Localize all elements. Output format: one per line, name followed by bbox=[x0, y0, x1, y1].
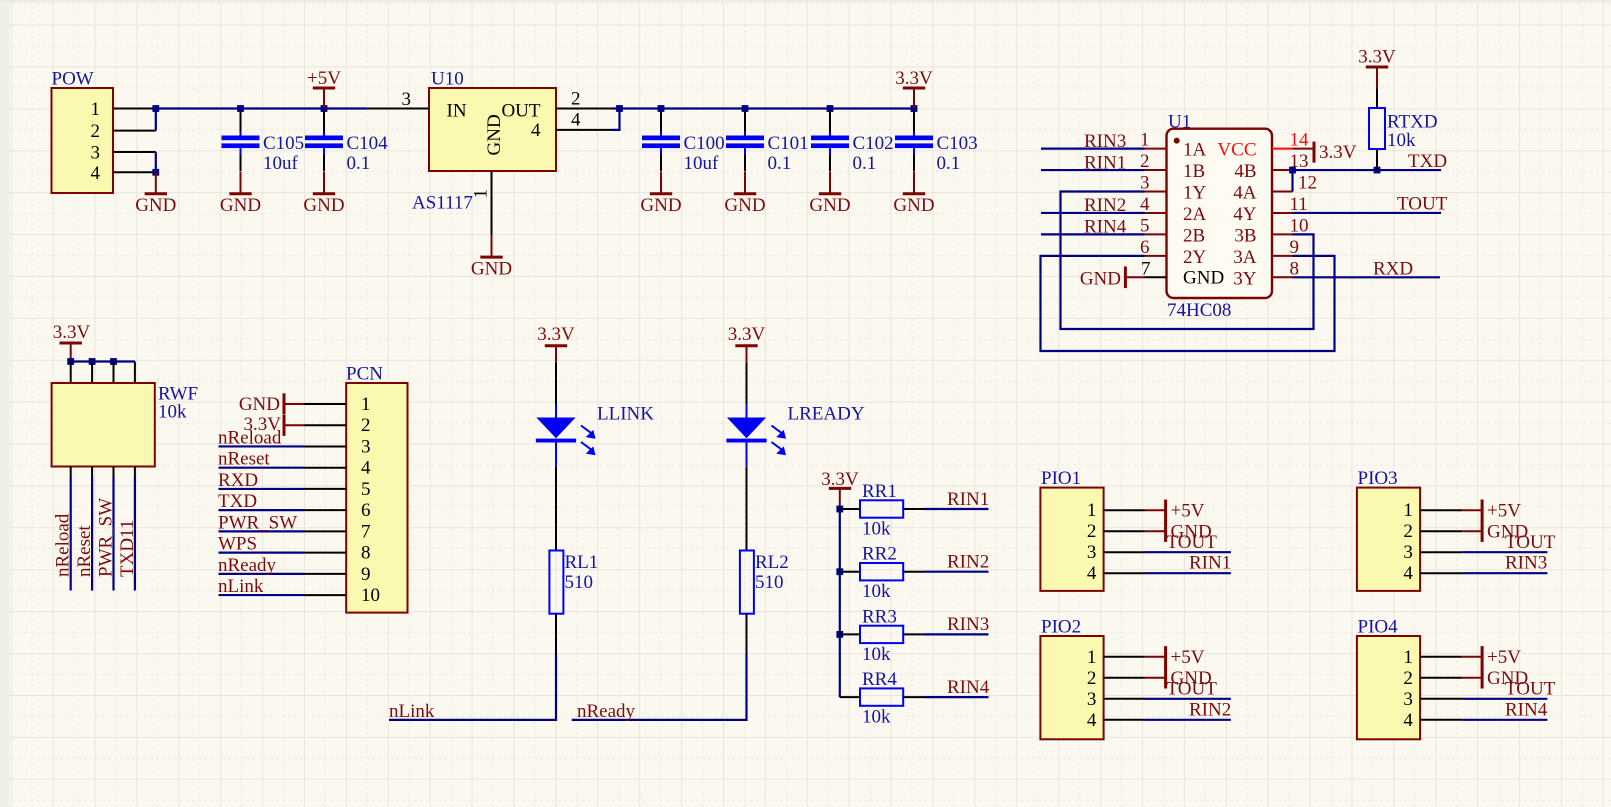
svg-text:TOUT: TOUT bbox=[1167, 532, 1218, 553]
svg-text:RR4: RR4 bbox=[862, 669, 897, 690]
svg-text:LREADY: LREADY bbox=[788, 404, 865, 425]
svg-text:10k: 10k bbox=[1387, 130, 1416, 151]
svg-text:RXD: RXD bbox=[218, 470, 258, 491]
svg-text:GND: GND bbox=[893, 195, 934, 216]
svg-text:GND: GND bbox=[640, 195, 681, 216]
svg-text:RIN1: RIN1 bbox=[1084, 152, 1126, 173]
svg-text:C103: C103 bbox=[937, 133, 978, 154]
svg-text:RIN4: RIN4 bbox=[1084, 217, 1127, 238]
svg-text:3.3V: 3.3V bbox=[728, 324, 766, 345]
svg-text:GND: GND bbox=[484, 114, 505, 155]
svg-text:3: 3 bbox=[361, 436, 371, 457]
svg-text:RL1: RL1 bbox=[565, 552, 599, 573]
svg-text:4: 4 bbox=[531, 120, 541, 141]
svg-text:2: 2 bbox=[361, 415, 371, 436]
svg-text:RIN3: RIN3 bbox=[1505, 553, 1547, 574]
svg-text:TOUT: TOUT bbox=[1167, 679, 1218, 700]
svg-text:IN: IN bbox=[447, 101, 467, 122]
svg-text:3.3V: 3.3V bbox=[821, 469, 859, 490]
svg-text:1: 1 bbox=[1140, 130, 1150, 151]
svg-text:74HC08: 74HC08 bbox=[1167, 300, 1231, 321]
svg-text:14: 14 bbox=[1290, 130, 1310, 151]
svg-text:C100: C100 bbox=[684, 133, 725, 154]
svg-text:10uf: 10uf bbox=[684, 153, 720, 174]
svg-text:2Y: 2Y bbox=[1183, 247, 1207, 268]
svg-text:GND: GND bbox=[303, 195, 344, 216]
svg-text:4: 4 bbox=[1403, 563, 1413, 584]
svg-text:GND: GND bbox=[471, 258, 512, 279]
svg-text:PIO3: PIO3 bbox=[1358, 468, 1398, 489]
svg-text:1: 1 bbox=[1087, 647, 1097, 668]
svg-text:GND: GND bbox=[1183, 267, 1224, 288]
svg-text:VCC: VCC bbox=[1217, 140, 1256, 161]
svg-text:0.1: 0.1 bbox=[768, 153, 792, 174]
svg-text:1: 1 bbox=[1403, 500, 1413, 521]
svg-text:5: 5 bbox=[1140, 215, 1150, 236]
svg-text:10k: 10k bbox=[158, 402, 187, 423]
svg-text:nReady: nReady bbox=[577, 701, 636, 722]
svg-text:8: 8 bbox=[1290, 258, 1300, 279]
svg-text:4Y: 4Y bbox=[1233, 204, 1257, 225]
svg-text:+5V: +5V bbox=[1171, 647, 1205, 668]
svg-text:TOUT: TOUT bbox=[1397, 193, 1448, 214]
svg-text:LLINK: LLINK bbox=[597, 404, 654, 425]
svg-text:3.3V: 3.3V bbox=[53, 322, 91, 343]
svg-text:3B: 3B bbox=[1234, 225, 1256, 246]
svg-text:4: 4 bbox=[1140, 194, 1150, 215]
svg-text:4: 4 bbox=[91, 163, 101, 184]
svg-text:nLink: nLink bbox=[389, 701, 435, 722]
svg-text:3A: 3A bbox=[1233, 247, 1257, 268]
svg-text:nReload: nReload bbox=[53, 513, 74, 577]
svg-text:TXD: TXD bbox=[218, 491, 257, 512]
svg-text:6: 6 bbox=[361, 500, 371, 521]
svg-text:PIO2: PIO2 bbox=[1041, 616, 1081, 637]
svg-text:RIN1: RIN1 bbox=[1189, 553, 1231, 574]
svg-text:nLink: nLink bbox=[218, 576, 264, 597]
svg-text:AS1117: AS1117 bbox=[412, 193, 473, 214]
svg-text:3: 3 bbox=[1403, 542, 1413, 563]
svg-text:510: 510 bbox=[755, 572, 784, 593]
svg-text:POW: POW bbox=[52, 69, 94, 90]
svg-text:3: 3 bbox=[91, 143, 101, 164]
svg-text:2A: 2A bbox=[1183, 204, 1207, 225]
svg-text:1A: 1A bbox=[1183, 140, 1207, 161]
svg-text:nReady: nReady bbox=[218, 555, 277, 576]
svg-text:TOUT: TOUT bbox=[1505, 532, 1556, 553]
svg-text:4: 4 bbox=[571, 110, 581, 131]
svg-text:8: 8 bbox=[361, 543, 371, 564]
svg-text:RR1: RR1 bbox=[862, 481, 897, 502]
svg-text:2: 2 bbox=[1403, 668, 1413, 689]
svg-text:1: 1 bbox=[1087, 500, 1097, 521]
svg-text:PIO1: PIO1 bbox=[1041, 468, 1081, 489]
svg-text:4: 4 bbox=[1403, 710, 1413, 731]
svg-text:1B: 1B bbox=[1183, 161, 1205, 182]
svg-text:2: 2 bbox=[1087, 668, 1097, 689]
svg-text:1: 1 bbox=[361, 394, 371, 415]
svg-text:2: 2 bbox=[1087, 521, 1097, 542]
svg-text:10: 10 bbox=[1290, 215, 1309, 236]
svg-text:GND: GND bbox=[135, 195, 176, 216]
svg-text:C102: C102 bbox=[853, 133, 894, 154]
svg-text:RIN2: RIN2 bbox=[1084, 195, 1126, 216]
svg-text:+5V: +5V bbox=[1487, 647, 1521, 668]
svg-text:2B: 2B bbox=[1183, 225, 1205, 246]
svg-text:RIN4: RIN4 bbox=[947, 677, 990, 698]
svg-text:3: 3 bbox=[1087, 689, 1097, 710]
svg-text:12: 12 bbox=[1298, 173, 1317, 194]
svg-text:11: 11 bbox=[1290, 194, 1308, 215]
svg-text:3: 3 bbox=[402, 89, 412, 110]
svg-text:RIN3: RIN3 bbox=[1084, 131, 1126, 152]
svg-text:4B: 4B bbox=[1234, 161, 1256, 182]
svg-text:5: 5 bbox=[361, 479, 371, 500]
svg-text:4A: 4A bbox=[1233, 183, 1257, 204]
svg-text:RIN4: RIN4 bbox=[1505, 699, 1548, 720]
svg-text:3Y: 3Y bbox=[1233, 268, 1257, 289]
svg-text:0.1: 0.1 bbox=[347, 153, 371, 174]
svg-text:RIN2: RIN2 bbox=[1189, 699, 1231, 720]
svg-text:2: 2 bbox=[1403, 521, 1413, 542]
svg-text:10k: 10k bbox=[862, 581, 891, 602]
svg-text:RL2: RL2 bbox=[755, 552, 789, 573]
svg-text:4: 4 bbox=[1087, 710, 1097, 731]
svg-text:4: 4 bbox=[361, 458, 371, 479]
svg-text:3: 3 bbox=[1087, 542, 1097, 563]
svg-text:3.3V: 3.3V bbox=[1319, 142, 1357, 163]
svg-text:PWR_SW: PWR_SW bbox=[96, 498, 117, 577]
svg-text:nReload: nReload bbox=[218, 427, 282, 448]
svg-text:4: 4 bbox=[1087, 563, 1097, 584]
svg-text:6: 6 bbox=[1140, 237, 1150, 258]
svg-text:C104: C104 bbox=[347, 133, 389, 154]
svg-text:0.1: 0.1 bbox=[937, 153, 961, 174]
svg-text:1Y: 1Y bbox=[1183, 183, 1207, 204]
svg-text:OUT: OUT bbox=[501, 101, 540, 122]
svg-text:PIO4: PIO4 bbox=[1358, 616, 1399, 637]
svg-text:7: 7 bbox=[1141, 258, 1151, 279]
svg-text:GND: GND bbox=[809, 195, 850, 216]
svg-text:10k: 10k bbox=[862, 519, 891, 540]
svg-text:2: 2 bbox=[91, 121, 101, 142]
svg-text:RR2: RR2 bbox=[862, 544, 897, 565]
svg-text:2: 2 bbox=[1140, 151, 1150, 172]
svg-text:GND: GND bbox=[1080, 268, 1121, 289]
svg-text:PWR_SW: PWR_SW bbox=[218, 512, 297, 533]
svg-text:1: 1 bbox=[1403, 647, 1413, 668]
svg-text:nReset: nReset bbox=[74, 525, 95, 577]
svg-text:9: 9 bbox=[361, 564, 371, 585]
svg-text:RIN3: RIN3 bbox=[947, 614, 989, 635]
svg-text:WPS: WPS bbox=[218, 534, 257, 555]
svg-text:GND: GND bbox=[724, 195, 765, 216]
svg-text:TXD: TXD bbox=[1408, 151, 1447, 172]
svg-text:RXD: RXD bbox=[1373, 258, 1413, 279]
svg-text:GND: GND bbox=[239, 394, 280, 415]
svg-text:+5V: +5V bbox=[1487, 501, 1521, 522]
svg-text:10: 10 bbox=[361, 585, 380, 606]
svg-text:GND: GND bbox=[220, 195, 261, 216]
svg-text:10uf: 10uf bbox=[263, 153, 299, 174]
svg-text:9: 9 bbox=[1290, 237, 1300, 258]
svg-text:10k: 10k bbox=[862, 707, 891, 728]
svg-text:0.1: 0.1 bbox=[853, 153, 877, 174]
svg-text:1: 1 bbox=[91, 99, 101, 120]
svg-text:RR3: RR3 bbox=[862, 606, 897, 627]
svg-text:TOUT: TOUT bbox=[1505, 679, 1556, 700]
svg-text:510: 510 bbox=[565, 572, 594, 593]
svg-text:RIN1: RIN1 bbox=[947, 489, 989, 510]
svg-text:C105: C105 bbox=[263, 133, 304, 154]
svg-text:3.3V: 3.3V bbox=[1358, 47, 1396, 68]
svg-text:RIN2: RIN2 bbox=[947, 552, 989, 573]
svg-text:3.3V: 3.3V bbox=[537, 324, 575, 345]
svg-text:1: 1 bbox=[471, 189, 492, 199]
svg-text:U1: U1 bbox=[1168, 112, 1191, 133]
svg-text:3: 3 bbox=[1140, 173, 1150, 194]
svg-text:10k: 10k bbox=[862, 644, 891, 665]
svg-text:U10: U10 bbox=[431, 69, 464, 90]
svg-text:nReset: nReset bbox=[218, 449, 270, 470]
svg-text:TXD11: TXD11 bbox=[117, 520, 138, 577]
svg-text:3.3V: 3.3V bbox=[895, 68, 933, 89]
svg-text:C101: C101 bbox=[768, 133, 809, 154]
svg-text:+5V: +5V bbox=[1171, 501, 1205, 522]
svg-text:7: 7 bbox=[361, 521, 371, 542]
svg-text:3: 3 bbox=[1403, 689, 1413, 710]
svg-text:2: 2 bbox=[571, 88, 581, 109]
svg-text:PCN: PCN bbox=[346, 364, 383, 385]
svg-text:+5V: +5V bbox=[307, 68, 341, 89]
